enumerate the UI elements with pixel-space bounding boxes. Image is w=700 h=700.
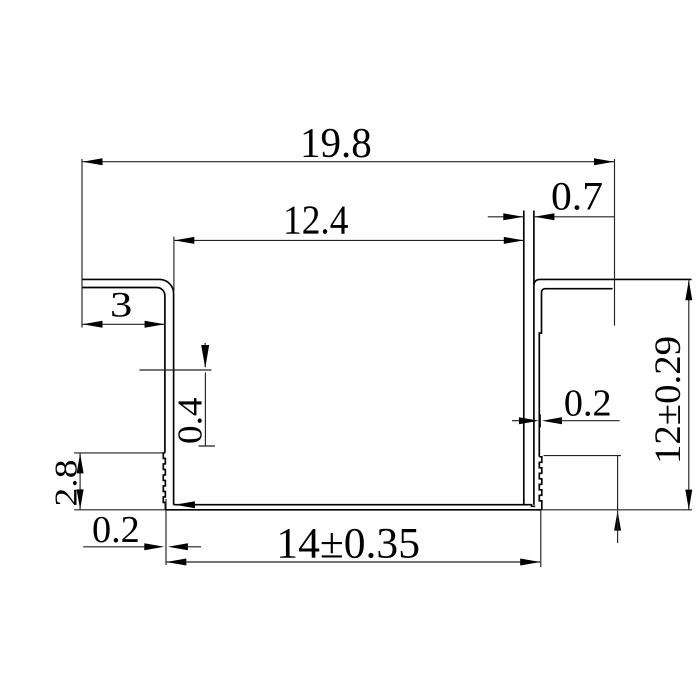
svg-text:2.8: 2.8 xyxy=(48,460,84,507)
svg-text:0.7: 0.7 xyxy=(551,173,603,218)
svg-text:3: 3 xyxy=(110,285,132,325)
svg-text:0.2: 0.2 xyxy=(564,383,612,425)
svg-text:14±0.35: 14±0.35 xyxy=(276,521,420,568)
svg-text:12.4: 12.4 xyxy=(283,197,349,243)
svg-text:19.8: 19.8 xyxy=(300,121,372,167)
svg-text:12±0.29: 12±0.29 xyxy=(648,336,689,464)
svg-text:0.4: 0.4 xyxy=(171,398,210,445)
svg-text:0.2: 0.2 xyxy=(92,509,140,551)
